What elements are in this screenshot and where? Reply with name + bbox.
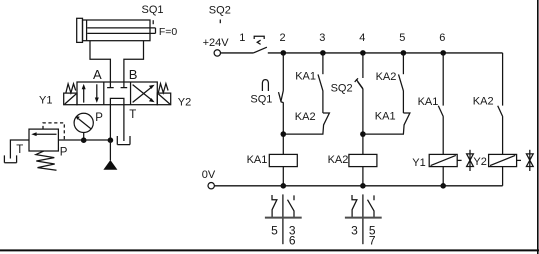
actuator symbol (SQ1) [262, 80, 268, 91]
relief valve pilot line (dashed) [43, 123, 64, 140]
svg-text:SQ1: SQ1 [250, 94, 272, 106]
pressure gauge G [74, 113, 93, 140]
node rail 6 [440, 50, 446, 56]
svg-text:0V: 0V [202, 169, 216, 181]
wire to pump source [109, 140, 111, 160]
svg-text:A: A [93, 67, 102, 82]
svg-text:KA1: KA1 [375, 110, 396, 122]
contact mirror KA2: NO contact [368, 195, 375, 217]
contact mirror KA2: vertical line [362, 194, 364, 244]
limit switch contact SQ2 [355, 78, 363, 89]
tank symbol (relief T) [4, 155, 16, 162]
node rail 5 [401, 50, 407, 56]
wire rung 3 upper [322, 53, 324, 74]
wire P supply rail [58, 139, 110, 141]
relay coil KA2 [349, 154, 377, 166]
solenoid box right (Y2) [157, 93, 170, 105]
valve symbol (Y1) [467, 150, 474, 171]
node rung4/rung5 junction [360, 131, 366, 137]
svg-text:6: 6 [439, 32, 445, 44]
relay coil KA1 [269, 154, 297, 166]
svg-text:Y2: Y2 [473, 156, 486, 168]
svg-text:KA1: KA1 [247, 154, 268, 166]
contact mirror KA2: base bar [345, 217, 382, 219]
wire +24V rail [268, 52, 503, 54]
node rail 2 [281, 50, 287, 56]
node rail 3 [320, 50, 326, 56]
spring left [66, 84, 76, 93]
switch S0 blade [253, 47, 267, 53]
contact KA1 NO (rung 6) [438, 106, 443, 117]
wire rung 4 upper [362, 53, 364, 78]
svg-text:1: 1 [239, 32, 245, 44]
svg-text:B: B [129, 67, 138, 82]
contact mirror KA1: base bar [265, 217, 302, 219]
spring right [158, 84, 168, 93]
svg-text:KA2: KA2 [328, 154, 349, 166]
svg-text:F=0: F=0 [159, 26, 178, 38]
wire 0V rail [215, 185, 503, 187]
solenoid Y1 [429, 154, 457, 166]
valve symbol (Y2) [526, 150, 533, 171]
svg-text:5: 5 [399, 32, 405, 44]
terminal +24V [214, 50, 220, 56]
svg-text:KA1: KA1 [418, 96, 439, 108]
svg-text:2: 2 [280, 32, 286, 44]
relief valve spring [36, 151, 57, 170]
node rail 4 [360, 50, 366, 56]
node: gauge junction [81, 137, 87, 143]
node: P junction [108, 137, 114, 143]
svg-text:T: T [16, 144, 23, 156]
svg-text:Y2: Y2 [178, 97, 191, 109]
wire +24V rail left segment [221, 52, 254, 54]
valve left position arrows [82, 84, 99, 103]
solenoid Y2 [489, 154, 517, 166]
cylinder C (body) [77, 18, 150, 42]
contact mirror KA1: NC contact [272, 195, 277, 217]
wire rung 5 upper [402, 53, 404, 74]
valve right position crossed arrows [133, 85, 155, 103]
wire rung 3 middle [322, 91, 324, 113]
contact KA2 NO (rung 5) [399, 74, 404, 90]
svg-text:KA1: KA1 [295, 70, 316, 82]
contact mirror KA2: NC contact [352, 195, 357, 217]
pump source triangle [103, 160, 117, 170]
svg-text:SQ2: SQ2 [331, 83, 353, 95]
svg-text:SQ1: SQ1 [142, 4, 164, 16]
svg-text:Y1: Y1 [39, 95, 52, 107]
contact mirror KA1: NO contact [288, 195, 295, 217]
node 0V rung4 [360, 183, 366, 189]
contact KA1 NO (rung 3) [318, 74, 323, 90]
svg-text:4: 4 [359, 32, 365, 44]
svg-text:KA2: KA2 [376, 71, 397, 83]
frame right line [537, 0, 539, 254]
limit switch contact SQ1 [279, 91, 284, 103]
node rung2/rung3 junction [281, 131, 287, 137]
frame bottom line [0, 249, 539, 251]
valve V1 body (4/3 directional valve) [77, 82, 157, 105]
svg-text:SQ2: SQ2 [209, 5, 231, 17]
contact mirror KA1: vertical line [282, 194, 284, 244]
wire Y1 to 0V [442, 167, 444, 186]
svg-text:T: T [129, 109, 136, 121]
wire cylinder port A to valve A [90, 41, 110, 82]
svg-text:P: P [60, 147, 68, 159]
relief valve RV body [29, 129, 58, 151]
wire coil KA1 to 0V [282, 167, 284, 186]
wire rung 5 middle [402, 91, 404, 113]
svg-text:6: 6 [289, 233, 296, 247]
wire rung 6 upper [442, 53, 444, 106]
terminal 0V [208, 183, 214, 189]
wire rung 3 to junction [283, 125, 323, 135]
svg-text:7: 7 [369, 233, 376, 247]
contact KA2 NC (rung 3) [323, 113, 330, 125]
switch S0 detent symbol [254, 36, 264, 44]
node 0V rung2 [281, 183, 287, 189]
wire Y2 to 0V [502, 167, 504, 186]
svg-text:KA2: KA2 [473, 95, 494, 107]
node 0V rung6 [440, 183, 446, 189]
wire cylinder port B to valve B [124, 41, 144, 82]
wire Y2 side stub [517, 159, 521, 161]
wire coil KA2 to 0V [362, 167, 364, 186]
cylinder piston rod [87, 28, 155, 34]
wire rung 7 middle [502, 116, 504, 154]
contact KA1 NC (rung 5) [403, 113, 410, 125]
wire rung 2 lower [282, 102, 284, 154]
limit switch position marker SQ2 [219, 20, 221, 24]
wire rung 5 to junction [363, 125, 404, 135]
wire rung 2 upper [282, 53, 284, 91]
svg-text:3: 3 [319, 32, 325, 44]
svg-text:+24V: +24V [203, 37, 230, 49]
limit switch position marker SQ1 [152, 20, 154, 24]
svg-text:Y1: Y1 [412, 157, 425, 169]
tank symbol (valve T) [117, 136, 130, 145]
contact KA2 NO (rung 7) [498, 106, 503, 117]
wire rung 4 lower [362, 89, 364, 155]
wire valve P port down [109, 105, 111, 140]
wire rung 6 middle [442, 116, 444, 154]
wire Y1 side stub [457, 159, 461, 161]
wire relief valve T to tank [10, 140, 29, 159]
svg-text:P: P [95, 112, 103, 124]
svg-text:3: 3 [351, 223, 358, 237]
wire rung 7 upper [502, 53, 504, 106]
valve centre position (blocked A,B; P-T bypass) [107, 82, 127, 105]
svg-text:5: 5 [271, 223, 278, 237]
svg-text:KA2: KA2 [295, 111, 316, 123]
solenoid box left (Y1) [64, 93, 77, 105]
wire valve T port down [123, 105, 125, 141]
